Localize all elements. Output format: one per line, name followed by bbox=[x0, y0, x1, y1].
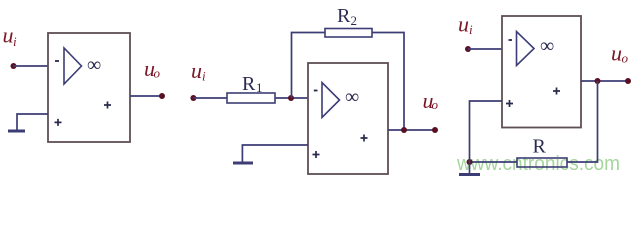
svg-text:1: 1 bbox=[256, 80, 263, 95]
junction dot output (right) bbox=[595, 78, 601, 84]
svg-text:∞: ∞ bbox=[87, 54, 101, 76]
op-amp U2 inverting input '-' bbox=[314, 90, 318, 92]
output terminal dot (right) bbox=[625, 78, 631, 84]
output terminal dot (middle) bbox=[432, 127, 438, 133]
svg-text:o: o bbox=[432, 97, 439, 112]
svg-text:∞: ∞ bbox=[540, 35, 554, 57]
resistor R2 bbox=[325, 29, 372, 38]
svg-text:u: u bbox=[3, 23, 14, 48]
svg-text:∞: ∞ bbox=[345, 86, 359, 108]
wire to ground (right) bbox=[469, 162, 471, 174]
op-amp U2 triangle bbox=[322, 83, 340, 118]
label u_o (left output) bbox=[144, 56, 161, 81]
op-amp U1 noninverting input '+' bbox=[55, 119, 62, 126]
wire input to R1 bbox=[193, 97, 227, 99]
ground (left) bbox=[8, 130, 25, 133]
wire R1 to op-amp bbox=[275, 97, 308, 99]
op-amp U2 box bbox=[308, 63, 388, 174]
input terminal dot (right) bbox=[465, 46, 471, 52]
wire to ground (middle) bbox=[242, 145, 308, 162]
resistor R1 bbox=[227, 93, 275, 103]
op-amp U1 box bbox=[48, 33, 130, 142]
svg-text:R: R bbox=[337, 5, 351, 27]
op-amp U1 triangle bbox=[64, 48, 82, 84]
wire feedback up bbox=[292, 33, 326, 99]
label u_i (middle input) bbox=[191, 58, 206, 84]
wire output (left) bbox=[130, 95, 162, 97]
label u_i (left input) bbox=[3, 23, 18, 50]
svg-text:u: u bbox=[191, 58, 202, 83]
op-amp U3 triangle bbox=[517, 32, 535, 66]
label u_o (right output) bbox=[611, 41, 629, 66]
wire input (left) bbox=[14, 65, 49, 67]
svg-text:u: u bbox=[458, 12, 469, 37]
op-amp U3 box bbox=[502, 16, 581, 128]
label R1 bbox=[242, 73, 263, 95]
svg-text:i: i bbox=[469, 22, 473, 37]
svg-text:u: u bbox=[611, 41, 622, 66]
op-amp U2 output polarity '+' bbox=[361, 135, 368, 142]
wire junction to noninverting input bbox=[470, 101, 503, 162]
junction dot (right bottom) bbox=[467, 159, 473, 165]
svg-text:R: R bbox=[533, 136, 547, 158]
wire output (middle) bbox=[388, 129, 435, 131]
wire feedback down (right) bbox=[567, 81, 598, 162]
op-amp U1 inverting input '-' bbox=[55, 60, 59, 62]
wire R to junction bbox=[470, 161, 518, 163]
label u_i (right input) bbox=[458, 12, 473, 38]
resistor R bbox=[517, 158, 567, 167]
ground (right) bbox=[459, 173, 480, 176]
op-amp U1 output polarity '+' bbox=[104, 102, 111, 109]
svg-text:R: R bbox=[242, 73, 256, 95]
wire output (right) bbox=[581, 80, 628, 82]
op-amp U3 inverting input '-' bbox=[509, 39, 513, 41]
wire to ground (left) bbox=[17, 114, 48, 130]
svg-text:2: 2 bbox=[351, 13, 358, 28]
wire R2 to output bbox=[372, 33, 404, 131]
svg-text:o: o bbox=[622, 51, 629, 66]
input terminal dot (left) bbox=[11, 63, 17, 69]
output terminal dot (left) bbox=[159, 93, 165, 99]
op-amp U3 noninverting input '+' bbox=[506, 100, 513, 107]
svg-text:i: i bbox=[13, 34, 17, 49]
ground (middle) bbox=[233, 162, 253, 165]
node junction dot (summing point) bbox=[288, 95, 294, 101]
wire input (right) bbox=[468, 48, 502, 50]
op-amp U2 noninverting input '+' bbox=[313, 151, 320, 158]
junction dot feedback/output bbox=[401, 127, 407, 133]
input terminal dot (middle) bbox=[190, 95, 196, 101]
op-amp U3 output polarity '+' bbox=[553, 88, 560, 95]
svg-text:i: i bbox=[202, 69, 206, 84]
label R2 bbox=[337, 5, 357, 28]
label u_o (middle output) bbox=[423, 88, 439, 113]
svg-text:o: o bbox=[154, 66, 161, 81]
